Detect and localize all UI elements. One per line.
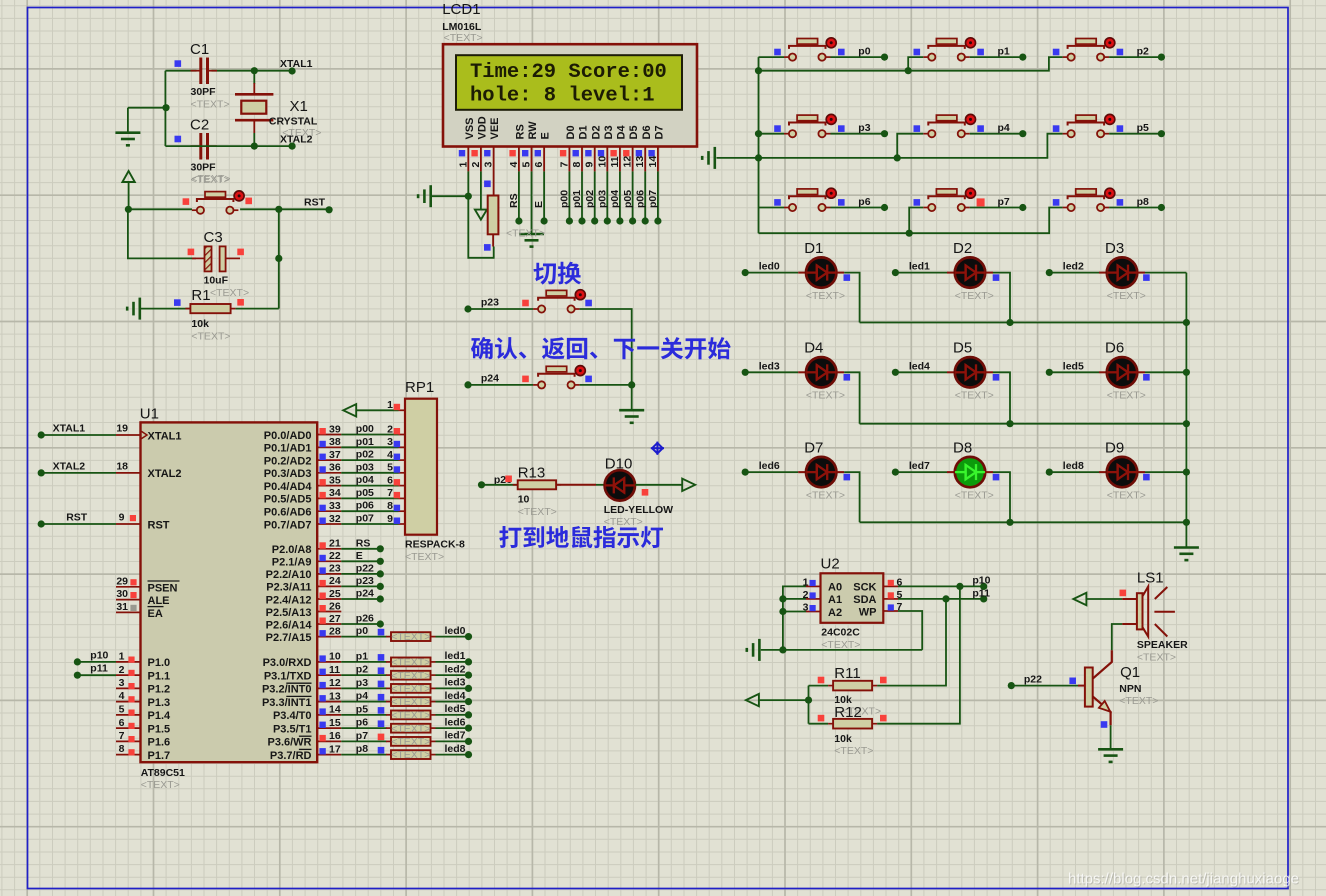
blue square p0 right	[838, 49, 845, 56]
pushbutton reset	[192, 191, 244, 214]
svg-text:<TEXT>: <TEXT>	[391, 670, 430, 682]
terminal p26 R13	[478, 481, 485, 488]
red square p23 left	[522, 300, 529, 307]
red square reset button left	[183, 198, 190, 205]
potentiometer RV body	[488, 196, 499, 235]
svg-text:<TEXT>: <TEXT>	[391, 696, 430, 708]
svg-text:p06: p06	[356, 500, 374, 512]
svg-text:10uF: 10uF	[204, 275, 229, 287]
svg-text:p0: p0	[858, 46, 870, 58]
svg-text:<TEXT>: <TEXT>	[282, 127, 321, 139]
svg-text:p00: p00	[356, 423, 374, 435]
svg-text:P3.7/RD: P3.7/RD	[270, 750, 312, 762]
svg-text:6: 6	[533, 162, 545, 168]
wire to led0 terminal	[436, 636, 469, 638]
pushbutton p6	[784, 188, 836, 211]
node pullup junction	[805, 697, 812, 704]
svg-text:P3.3/INT1: P3.3/INT1	[262, 697, 312, 709]
blue square R1 left	[174, 299, 181, 306]
caption hit-mole indicator light	[499, 526, 663, 548]
resistor R-led0	[386, 632, 436, 641]
wire arrow to pullup junction	[759, 699, 809, 701]
svg-text:VSS: VSS	[464, 117, 476, 139]
terminal led1	[892, 269, 899, 276]
caption qiehuan (switch)	[533, 262, 581, 285]
svg-text:E: E	[540, 132, 552, 139]
svg-text:SCK: SCK	[853, 582, 876, 594]
wire p23 to common drop	[580, 309, 632, 385]
svg-text:<TEXT>: <TEXT>	[405, 551, 444, 563]
terminal led0	[742, 269, 749, 276]
svg-text:D7: D7	[654, 125, 666, 139]
led D9	[1107, 457, 1137, 487]
svg-text:<TEXT>: <TEXT>	[210, 287, 249, 299]
svg-text:<TEXT>: <TEXT>	[506, 227, 545, 239]
node RST branch junction	[275, 206, 282, 213]
svg-text:<TEXT>: <TEXT>	[444, 32, 483, 44]
svg-text:AT89C51: AT89C51	[141, 767, 185, 779]
wire ground to VSS	[432, 195, 468, 197]
svg-text:5: 5	[387, 462, 393, 474]
red square R1 right	[237, 299, 244, 306]
wire SCK to p10	[898, 585, 984, 587]
svg-text:P0.3/AD3: P0.3/AD3	[264, 468, 312, 480]
wire p0 to terminal	[831, 56, 885, 58]
svg-text:A0: A0	[828, 582, 842, 594]
pins P1.0-P1.7	[116, 651, 171, 762]
svg-text:P0.1/AD1: P0.1/AD1	[264, 443, 312, 455]
svg-text:4: 4	[119, 690, 125, 702]
chip U1 body	[141, 422, 318, 762]
wire D9 anode out	[1137, 471, 1145, 473]
wire U2 ground bus	[761, 649, 922, 651]
svg-text:<TEXT>: <TEXT>	[191, 331, 230, 343]
LCD LM016L body	[443, 44, 697, 146]
wire C2 to XTAL2 terminal	[165, 145, 292, 147]
blue square D5	[993, 374, 1000, 381]
wire crystal top	[253, 71, 255, 84]
svg-text:<TEXT>: <TEXT>	[1107, 489, 1146, 501]
svg-text:P0.7/AD7: P0.7/AD7	[264, 519, 312, 531]
node ground bus left	[755, 154, 762, 161]
pushbutton p0	[784, 38, 836, 61]
chip U2 body	[821, 573, 884, 623]
led D2	[955, 257, 985, 287]
pins U2 A0 A1 A2	[803, 576, 842, 618]
svg-text:D4: D4	[616, 125, 628, 140]
svg-text:Q1: Q1	[1120, 664, 1140, 681]
led D5	[955, 357, 985, 387]
svg-text:P3.6/WR: P3.6/WR	[267, 737, 311, 749]
terminal RS under LCD	[515, 217, 522, 224]
svg-text:p3: p3	[858, 122, 870, 134]
wire p1 to terminal	[970, 56, 1023, 58]
pin 30 ALE	[116, 599, 141, 601]
wire ground bus row2	[717, 134, 1063, 158]
wire R1 to RST branch	[236, 308, 279, 310]
node row1 bus left	[755, 67, 762, 74]
svg-text:P0.5/AD5: P0.5/AD5	[264, 494, 312, 506]
svg-text:P1.5: P1.5	[148, 723, 171, 735]
svg-text:RST: RST	[66, 511, 88, 523]
led D10 yellow	[605, 470, 635, 500]
blue square D3	[1143, 274, 1150, 281]
terminal p10	[74, 658, 81, 665]
ground oscillator	[127, 108, 129, 133]
svg-text:led4: led4	[445, 690, 466, 702]
svg-text:RW: RW	[527, 121, 539, 140]
wire R12 left	[809, 723, 829, 725]
terminal p22	[1008, 682, 1015, 689]
svg-text:35: 35	[329, 474, 341, 486]
svg-text:p7: p7	[998, 196, 1010, 208]
svg-text:2: 2	[119, 664, 125, 676]
svg-text:2: 2	[387, 423, 393, 435]
blue square p1 left	[914, 49, 921, 56]
svg-text:P3.0/RXD: P3.0/RXD	[263, 657, 312, 669]
svg-text:34: 34	[329, 487, 341, 499]
blue square D6	[1143, 374, 1150, 381]
svg-text:17: 17	[329, 743, 341, 755]
svg-text:P1.6: P1.6	[148, 737, 171, 749]
svg-text:PSEN: PSEN	[148, 582, 178, 594]
svg-text:10: 10	[596, 156, 608, 168]
power arrow pullups	[746, 694, 759, 706]
svg-text:18: 18	[116, 461, 128, 473]
terminal p3	[881, 130, 888, 137]
wire U2 left pins common	[783, 586, 806, 650]
terminal p11 right	[980, 595, 987, 602]
red square reset button right	[245, 198, 252, 205]
svg-text:<TEXT>: <TEXT>	[955, 290, 994, 302]
wire led7 to D8	[895, 471, 947, 473]
wire SDA to p11	[898, 598, 984, 600]
svg-text:<TEXT>: <TEXT>	[806, 489, 845, 501]
svg-text:30PF: 30PF	[191, 86, 217, 98]
terminal led8	[1046, 469, 1053, 476]
svg-text:30PF: 30PF	[191, 162, 217, 174]
svg-text:7: 7	[558, 162, 570, 168]
svg-text:<TEXT>: <TEXT>	[518, 506, 557, 518]
terminal p2	[1158, 54, 1165, 61]
svg-text:VDD: VDD	[477, 116, 489, 139]
wire D10 to output arrow	[635, 484, 682, 486]
svg-text:led2: led2	[445, 663, 466, 675]
svg-text:P2.3/A11: P2.3/A11	[266, 582, 311, 594]
pushbutton p8	[1063, 188, 1115, 211]
blue square p6 left	[774, 199, 781, 206]
svg-text:hole: 8 level:1: hole: 8 level:1	[470, 85, 655, 108]
wire RST row left	[128, 208, 192, 210]
wire p3 to terminal	[831, 133, 885, 135]
svg-text:p06: p06	[634, 190, 646, 208]
svg-text:14: 14	[329, 704, 341, 716]
svg-text:EA: EA	[148, 608, 163, 620]
led D4	[806, 357, 836, 387]
transistor Q1 emitter	[1093, 696, 1111, 725]
svg-text:LED-YELLOW: LED-YELLOW	[604, 504, 673, 516]
svg-text:D4: D4	[804, 340, 823, 357]
node A1 junction	[779, 595, 786, 602]
wire p0 left	[759, 56, 785, 58]
svg-text:P0.6/AD6: P0.6/AD6	[264, 507, 312, 519]
wire p7 drop	[909, 208, 923, 234]
svg-text:p01: p01	[356, 436, 374, 448]
wire D8 anode out	[985, 471, 993, 473]
svg-text:p7: p7	[356, 730, 368, 742]
node p23 p24 junction	[628, 381, 635, 388]
wire led8 to D9	[1049, 471, 1099, 473]
red square R13 left	[505, 476, 512, 483]
svg-text:8: 8	[387, 500, 393, 512]
svg-text:p05: p05	[356, 487, 374, 499]
pins P2.0-P2.7	[266, 537, 384, 644]
svg-text:<TEXT>: <TEXT>	[1107, 290, 1146, 302]
terminals p00-p07 under LCD	[566, 217, 662, 224]
transistor Q1 body	[1085, 668, 1093, 707]
svg-text:RS: RS	[508, 193, 520, 208]
svg-text:p0: p0	[356, 625, 368, 637]
resistor R11	[828, 681, 877, 691]
svg-text:D5: D5	[953, 340, 972, 357]
svg-text:D9: D9	[1105, 440, 1124, 457]
svg-text:U2: U2	[821, 555, 840, 572]
svg-text:led1: led1	[445, 650, 466, 662]
svg-text:X1: X1	[290, 98, 308, 115]
cursor crosshair	[651, 442, 664, 455]
svg-text:p11: p11	[90, 663, 108, 675]
LCD screen	[456, 55, 682, 110]
wire RS pin4 down	[518, 171, 520, 221]
wire p6 to terminal	[831, 207, 885, 209]
svg-text:XTAL2: XTAL2	[53, 460, 86, 472]
blue square D9	[1143, 474, 1150, 481]
svg-text:p10: p10	[972, 575, 990, 587]
wire p23 to button	[468, 308, 533, 310]
wire R11 to SDA	[877, 599, 946, 686]
svg-text:D10: D10	[605, 455, 633, 472]
svg-text:1: 1	[387, 399, 393, 411]
svg-text:XTAL1: XTAL1	[280, 58, 313, 70]
wire left riser C1-C2 to ground	[164, 71, 166, 146]
svg-text:P2.7/A15: P2.7/A15	[266, 632, 312, 644]
blue square p1 right	[977, 49, 984, 56]
svg-text:P1.0: P1.0	[148, 657, 171, 669]
svg-text:9: 9	[584, 162, 596, 168]
svg-text:p8: p8	[356, 743, 368, 755]
pin 29 PSEN	[116, 586, 141, 588]
node row3 bus col2	[1006, 519, 1013, 526]
wire junction to ground	[128, 107, 166, 109]
svg-text:p24: p24	[356, 588, 374, 600]
blue square p23 right	[585, 300, 592, 307]
pushbutton p23	[533, 290, 585, 313]
svg-text:Time:29 Score:00: Time:29 Score:00	[470, 61, 667, 84]
svg-text:10: 10	[329, 651, 341, 663]
blue square p8 left	[1053, 199, 1060, 206]
wires D0-D7 down	[569, 171, 658, 221]
node RST left junction	[125, 206, 132, 213]
svg-text:5: 5	[119, 704, 125, 716]
svg-text:13: 13	[329, 690, 341, 702]
svg-text:30: 30	[116, 588, 128, 600]
svg-text:8: 8	[571, 162, 583, 168]
wire p7 to terminal	[970, 207, 1023, 209]
svg-text:<TEXT>: <TEXT>	[391, 749, 430, 761]
svg-text:p24: p24	[481, 373, 499, 385]
terminal led6	[742, 469, 749, 476]
node VSS ground junction	[465, 193, 472, 200]
caption confirm return next-level-start	[471, 337, 731, 359]
svg-text:28: 28	[329, 625, 341, 637]
wire RST branch down	[278, 209, 280, 308]
svg-text:p23: p23	[356, 575, 374, 587]
red square D10	[642, 489, 649, 496]
svg-text:<TEXT>: <TEXT>	[141, 779, 180, 791]
terminal p5	[1158, 130, 1165, 137]
svg-text:P1.2: P1.2	[148, 684, 171, 696]
svg-text:<TEXT>: <TEXT>	[391, 710, 430, 722]
pin 28 p0 to resistor led0	[341, 636, 386, 638]
svg-text:p23: p23	[481, 297, 499, 309]
svg-text:SDA: SDA	[853, 594, 876, 606]
svg-text:D6: D6	[1105, 340, 1124, 357]
terminal led5	[1046, 369, 1053, 376]
wire power to RST row	[128, 182, 130, 209]
svg-text:p00: p00	[559, 190, 571, 208]
wire led2 to D3	[1049, 272, 1099, 274]
wire p11 to chip	[77, 674, 116, 676]
node C3 junction	[275, 255, 282, 262]
svg-text:13: 13	[634, 156, 646, 168]
node SCK R12 junction	[956, 583, 963, 590]
labels p00-p07 vertical	[559, 190, 660, 208]
power arrow reset	[122, 171, 134, 182]
pushbutton p2	[1063, 38, 1115, 61]
svg-text:led8: led8	[1063, 460, 1084, 472]
wire led1 to D2	[895, 272, 947, 274]
node row2 bus right	[1183, 420, 1190, 427]
wire LED row2 bus	[860, 423, 1187, 425]
svg-text:P1.7: P1.7	[148, 750, 171, 762]
pushbutton p7	[923, 188, 975, 211]
svg-text:39: 39	[329, 423, 341, 435]
wire led4 to D5	[895, 371, 947, 373]
resistor R1	[185, 304, 235, 313]
node row2 bus col2	[1006, 420, 1013, 427]
blue square p6 right	[838, 199, 845, 206]
svg-text:p10: p10	[90, 649, 108, 661]
svg-text:7: 7	[119, 730, 125, 742]
power arrow D10 output	[682, 479, 695, 491]
pushbutton p3	[784, 114, 836, 137]
wire pullup left riser	[808, 686, 810, 724]
terminal XTAL2 chip	[38, 469, 45, 476]
blue square C1	[175, 60, 182, 67]
red square R12 right	[880, 715, 887, 722]
ground button grid	[702, 147, 715, 169]
wire speaker to collector	[1112, 624, 1122, 650]
capacitor C3 electrolytic	[192, 246, 240, 271]
svg-text:24C02C: 24C02C	[821, 626, 860, 638]
wire D2 anode out	[985, 272, 993, 274]
svg-text:led0: led0	[759, 261, 780, 273]
svg-text:p4: p4	[998, 122, 1010, 134]
svg-text:8: 8	[119, 743, 125, 755]
wire XTAL2 to chip	[41, 472, 116, 474]
wire button grid left bus	[758, 57, 760, 233]
led D6	[1107, 357, 1137, 387]
svg-text:LS1: LS1	[1137, 569, 1164, 586]
svg-text:XTAL1: XTAL1	[53, 422, 86, 434]
svg-text:led3: led3	[759, 360, 780, 372]
wire p4 to terminal	[970, 133, 1023, 135]
svg-text:p8: p8	[1137, 196, 1149, 208]
blue square p3 right	[838, 125, 845, 132]
svg-text:38: 38	[329, 436, 341, 448]
svg-text:D6: D6	[641, 125, 653, 139]
svg-text:1: 1	[119, 651, 125, 663]
svg-text:U1: U1	[140, 406, 159, 423]
svg-text:P1.3: P1.3	[148, 697, 171, 709]
svg-text:p07: p07	[356, 513, 374, 525]
svg-text:led5: led5	[1063, 360, 1084, 372]
wire WP down to ground bus	[898, 611, 922, 650]
pin 6 SCK	[883, 585, 898, 587]
svg-text:P2.2/A10: P2.2/A10	[266, 569, 312, 581]
blue square p4 left	[914, 125, 921, 132]
pin 18 XTAL2	[116, 472, 141, 474]
svg-text:p6: p6	[858, 196, 870, 208]
capacitor C2	[191, 133, 218, 160]
wire p26 to R13	[482, 484, 518, 486]
svg-text:VEE: VEE	[489, 117, 501, 139]
svg-text:D1: D1	[804, 240, 823, 257]
svg-text:led5: led5	[445, 703, 466, 715]
svg-text:<TEXT>: <TEXT>	[391, 736, 430, 748]
blue square p4 right	[977, 125, 984, 132]
svg-text:<TEXT>: <TEXT>	[191, 173, 230, 185]
svg-text:2: 2	[470, 162, 482, 168]
ground RW	[519, 234, 544, 247]
svg-text:p3: p3	[356, 677, 368, 689]
svg-text:21: 21	[329, 538, 341, 550]
svg-text:D3: D3	[603, 125, 615, 139]
blue square p24 right	[585, 376, 592, 383]
wire p2 to terminal	[1109, 56, 1161, 58]
wire p4 drop	[897, 134, 923, 158]
svg-text:p22: p22	[1024, 674, 1042, 686]
svg-text:p22: p22	[356, 562, 374, 574]
terminal p11	[74, 672, 81, 679]
terminal p6	[881, 204, 888, 211]
svg-text:<TEXT>: <TEXT>	[806, 290, 845, 302]
svg-text:LM016L: LM016L	[442, 21, 482, 33]
terminal XTAL2	[289, 143, 296, 150]
svg-text:6: 6	[387, 474, 393, 486]
svg-text:<TEXT>: <TEXT>	[604, 516, 643, 528]
svg-text:p26: p26	[356, 613, 374, 625]
resistor R12	[828, 719, 877, 729]
blue square pot bottom	[484, 244, 491, 251]
pin 5 SDA	[883, 598, 898, 600]
svg-text:ALE: ALE	[148, 595, 170, 607]
wire led5 to D6	[1049, 371, 1099, 373]
svg-text:<TEXT>: <TEXT>	[391, 631, 430, 643]
wire led0 to D1	[745, 272, 798, 274]
wire C1 right to XTAL1 terminal	[212, 70, 293, 72]
ground Q1	[1098, 749, 1123, 762]
